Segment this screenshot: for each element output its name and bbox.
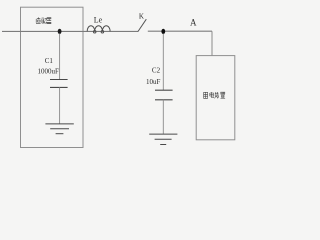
C2 lead to ground: [162, 100, 164, 134]
svg-text:A: A: [190, 17, 197, 27]
C1 lead to ground: [59, 87, 61, 123]
装: [215, 92, 219, 98]
label 用电装置: [204, 92, 226, 98]
ground (C2): [149, 134, 177, 144]
main wire left segment: [2, 30, 138, 32]
电: [210, 92, 214, 98]
capacitor C1: [50, 34, 68, 124]
器: [47, 18, 51, 24]
main wire right segment: [148, 30, 212, 32]
置: [221, 92, 226, 98]
C1 lead from node: [59, 34, 61, 80]
C2 bottom plate: [155, 99, 173, 101]
C1 top plate: [50, 79, 68, 81]
适: [36, 17, 41, 23]
inductor Le: [87, 26, 110, 33]
switch K arm: [138, 19, 146, 31]
capacitor C2: [155, 34, 173, 134]
wire down to load box: [211, 31, 213, 55]
adapter box (适配器): [21, 7, 84, 147]
C2 top plate: [155, 89, 173, 91]
ground (C1): [45, 124, 73, 134]
svg-text:1000uF: 1000uF: [37, 67, 59, 75]
C1 bottom plate: [50, 86, 68, 88]
C2 lead from node A: [162, 34, 164, 91]
load box (用电装置): [196, 56, 235, 140]
svg-text:Le: Le: [94, 15, 103, 24]
svg-text:10uF: 10uF: [146, 78, 161, 86]
svg-text:C1: C1: [45, 57, 54, 65]
用: [204, 92, 208, 98]
label 适配器: [36, 17, 51, 23]
配: [42, 18, 47, 23]
svg-text:C2: C2: [152, 67, 161, 75]
svg-text:K: K: [139, 13, 144, 21]
node (junction dot at C1 tap): [58, 29, 62, 34]
node A junction dot: [161, 29, 165, 34]
